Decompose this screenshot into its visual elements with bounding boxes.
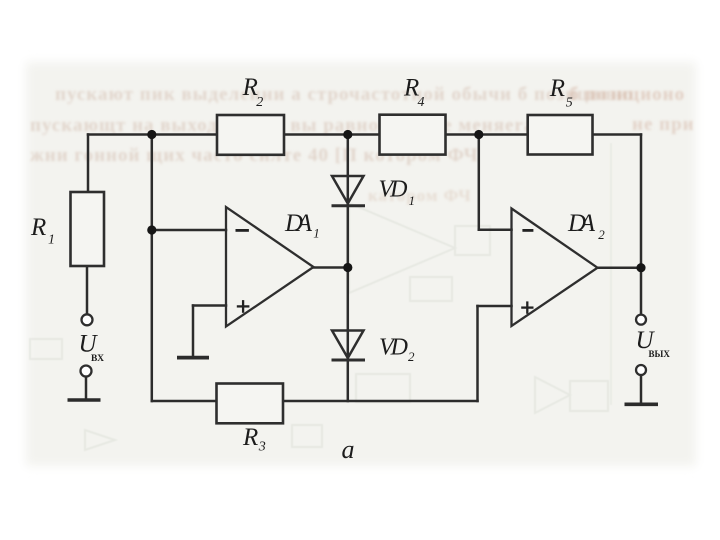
svg-text:а: а — [342, 435, 355, 464]
svg-text:R: R — [30, 214, 46, 241]
svg-text:R: R — [549, 75, 565, 102]
svg-text:б позиционо: б позиционо — [569, 84, 685, 105]
svg-text:ВЫХ: ВЫХ — [649, 349, 671, 359]
svg-text:2: 2 — [408, 349, 415, 364]
svg-text:пускающт на выходе и ге с вы: пускающт на выходе и ге с вы равномерн н… — [30, 115, 576, 136]
svg-text:DA: DA — [567, 210, 596, 237]
svg-text:ВХ: ВХ — [91, 354, 104, 364]
svg-text:VD: VD — [379, 177, 408, 203]
svg-text:VD: VD — [379, 335, 408, 361]
svg-text:DA: DA — [284, 210, 313, 237]
svg-text:1: 1 — [48, 233, 55, 248]
svg-text:1: 1 — [409, 193, 416, 208]
svg-text:3: 3 — [258, 440, 266, 455]
svg-text:4: 4 — [418, 95, 425, 110]
svg-text:R: R — [242, 424, 258, 451]
svg-text:не при: не при — [632, 114, 695, 135]
svg-text:1: 1 — [313, 226, 320, 241]
svg-text:2: 2 — [598, 227, 605, 242]
svg-text:пускают пик выделенни а стр: пускают пик выделенни а строчастотной об… — [55, 84, 634, 105]
svg-text:5: 5 — [566, 95, 573, 110]
svg-text:2: 2 — [256, 95, 263, 110]
